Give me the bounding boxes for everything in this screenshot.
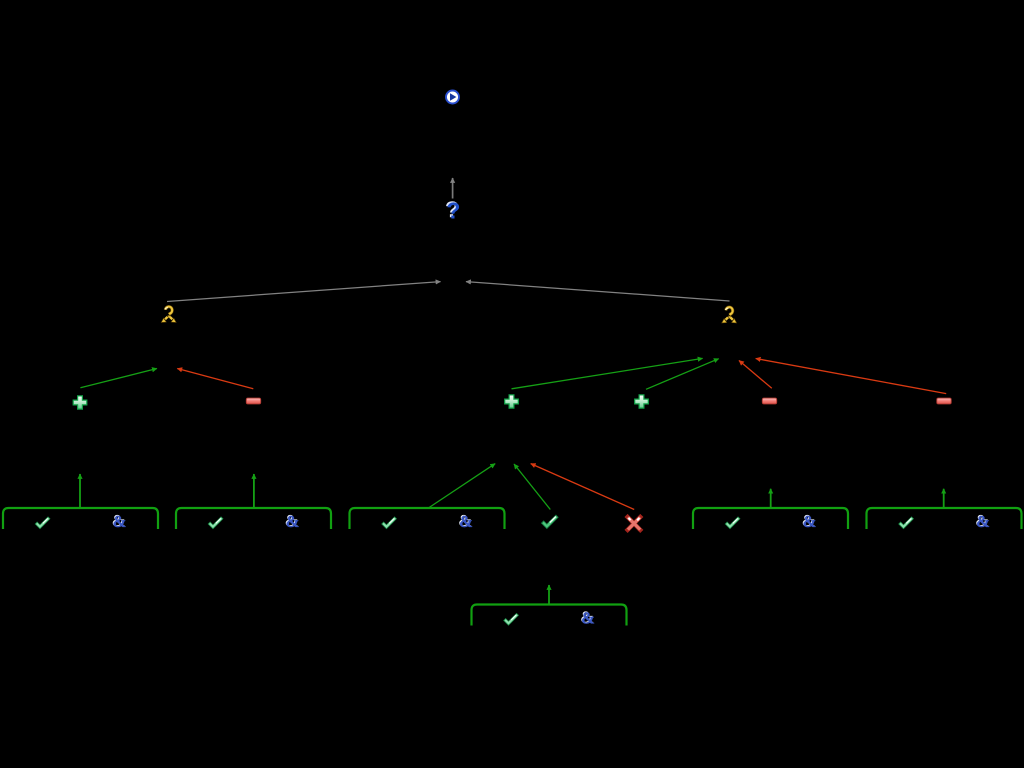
node: claim (green check) [544,517,556,526]
edge: fact4 to con2 (green arrow up) [770,489,772,507]
edge: question to goal (gray arrow) [452,178,454,199]
node: question (blue ?) [446,201,459,218]
node: option L (gold fork) [161,307,176,323]
edge: pro3 to option R (green) [646,359,719,390]
edge: con1 to option L (red) [177,369,253,389]
node: con2 (-) [762,398,776,404]
edge: con3 to option R (red) [756,359,947,394]
edge: pro1 to option L (green) [80,369,156,388]
edge: con2 to option R (red) [739,361,772,389]
node: pro2 (+) [505,395,519,408]
box: fact1 [3,508,158,529]
node: pro3 (+) [635,395,649,408]
node: refuted (red X) [628,517,641,530]
edge: fact1 to pro1 (green arrow up) [79,474,81,508]
node: con3 (-) [937,398,951,404]
box: fact6 [472,605,627,626]
node: pro1 (+) [73,396,87,409]
box: fact5 [867,508,1022,529]
box: fact2 [176,508,331,529]
node: option R (gold fork) [722,307,737,323]
edge: option R to question (gray) [466,282,730,301]
edge: pro2 to option R (green) [512,358,703,388]
edge: fact3 to pro2 (green diagonal) [428,464,495,508]
node: con1 (-) [246,398,260,404]
edge: fact2 to con1 (green arrow up) [253,474,255,508]
edge: refuted to pro2 (red) [531,464,635,510]
node: goal (blue play icon) [446,91,459,104]
box: fact3 [350,508,505,529]
box: fact4 [693,508,848,529]
edge: fact5 to con3 (green arrow up) [943,489,945,507]
edge: fact6 to claim (green arrow up) [548,585,550,604]
edge: claim to pro2 (green) [514,464,550,510]
edge: option L to question (gray) [167,282,441,302]
